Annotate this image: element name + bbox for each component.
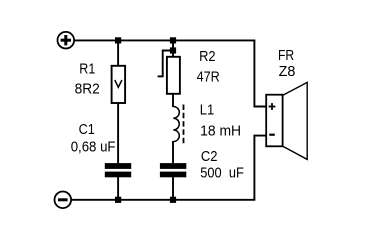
terminal + (positive input): [58, 32, 75, 49]
wire L1 to C2: [172, 141, 174, 164]
node junction R2 tap: [170, 47, 176, 53]
svg-text:0,68 uF: 0,68 uF: [71, 140, 116, 156]
svg-text:500 uF: 500 uF: [200, 165, 244, 181]
capacitor C1: [105, 163, 131, 177]
svg-text:R2: R2: [199, 49, 216, 65]
wire bottom rail: [71, 199, 255, 201]
svg-text:FR: FR: [278, 48, 294, 64]
resistor R2: [167, 57, 180, 94]
wire R1 to C1: [117, 103, 119, 164]
svg-text:47R: 47R: [197, 70, 220, 86]
svg-text:Z8: Z8: [279, 64, 296, 80]
terminal - (negative input): [55, 192, 72, 209]
wire C2 bottom lead: [172, 177, 174, 200]
node junction R1 top: [115, 37, 121, 43]
speaker FR: [266, 82, 307, 159]
inductor L1: [173, 105, 183, 144]
svg-text:8R2: 8R2: [75, 81, 100, 97]
node junction C1 bottom: [115, 197, 121, 203]
resistor R1: [112, 66, 126, 103]
capacitor C2: [160, 163, 186, 177]
wire speaker positive lead: [254, 40, 266, 106]
wire top rail: [74, 39, 255, 41]
node junction C2 bottom: [170, 197, 176, 203]
svg-text:R1: R1: [79, 62, 95, 78]
wire R1 top lead: [117, 40, 119, 66]
svg-text:18 mH: 18 mH: [200, 123, 241, 139]
wire R2 tap: [158, 51, 173, 77]
svg-text:L1: L1: [200, 102, 214, 118]
svg-text:C1: C1: [79, 122, 95, 138]
wire speaker negative lead: [254, 136, 266, 200]
node junction R2 top: [170, 37, 176, 43]
wire C1 bottom lead: [117, 177, 119, 200]
wire R2 to L1: [172, 94, 174, 107]
wire R2 top lead: [172, 40, 174, 57]
svg-text:C2: C2: [201, 149, 218, 165]
